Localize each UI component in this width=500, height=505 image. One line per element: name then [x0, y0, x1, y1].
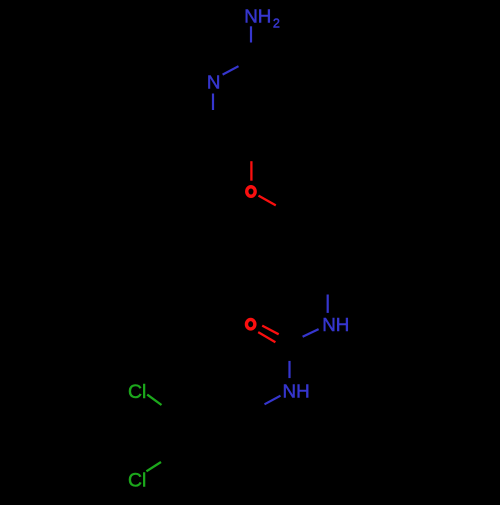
bond Cl-C4'' (half, Cl side)	[146, 462, 161, 471]
bond NH2-C2 (half, N side)	[250, 26, 252, 42]
svg-text:NH: NH	[322, 314, 349, 335]
double bond C=O line 1 (half, O side)	[262, 326, 279, 335]
svg-text:N: N	[207, 71, 221, 92]
bond N1-C6 (half, N side)	[212, 94, 214, 111]
atom label N (amine NH2)	[244, 5, 280, 30]
bond C5-O ether (half, O side)	[250, 161, 252, 181]
bond C6''-NH (half, N side)	[327, 295, 329, 313]
atom label O (ether)	[247, 187, 255, 197]
bond N1-C2 (half, N side)	[223, 66, 239, 74]
bond NH-C1'' aryl (half, N side)	[265, 396, 281, 405]
bond NH-C(=O) (half, N side)	[303, 329, 319, 337]
double bond C=O line 2 (half, O side)	[258, 332, 275, 342]
atom label O (carbonyl)	[246, 319, 254, 329]
bond Cl-C3'' (half, Cl side)	[147, 395, 161, 405]
svg-text:NH: NH	[283, 381, 310, 402]
svg-text:Cl: Cl	[128, 381, 146, 403]
bond O-C1' (half, O side)	[259, 196, 276, 206]
svg-text:2: 2	[273, 17, 280, 31]
svg-text:NH: NH	[244, 5, 271, 26]
svg-text:Cl: Cl	[128, 469, 146, 491]
bond C(=O)-NH second (half, N side)	[288, 361, 290, 378]
